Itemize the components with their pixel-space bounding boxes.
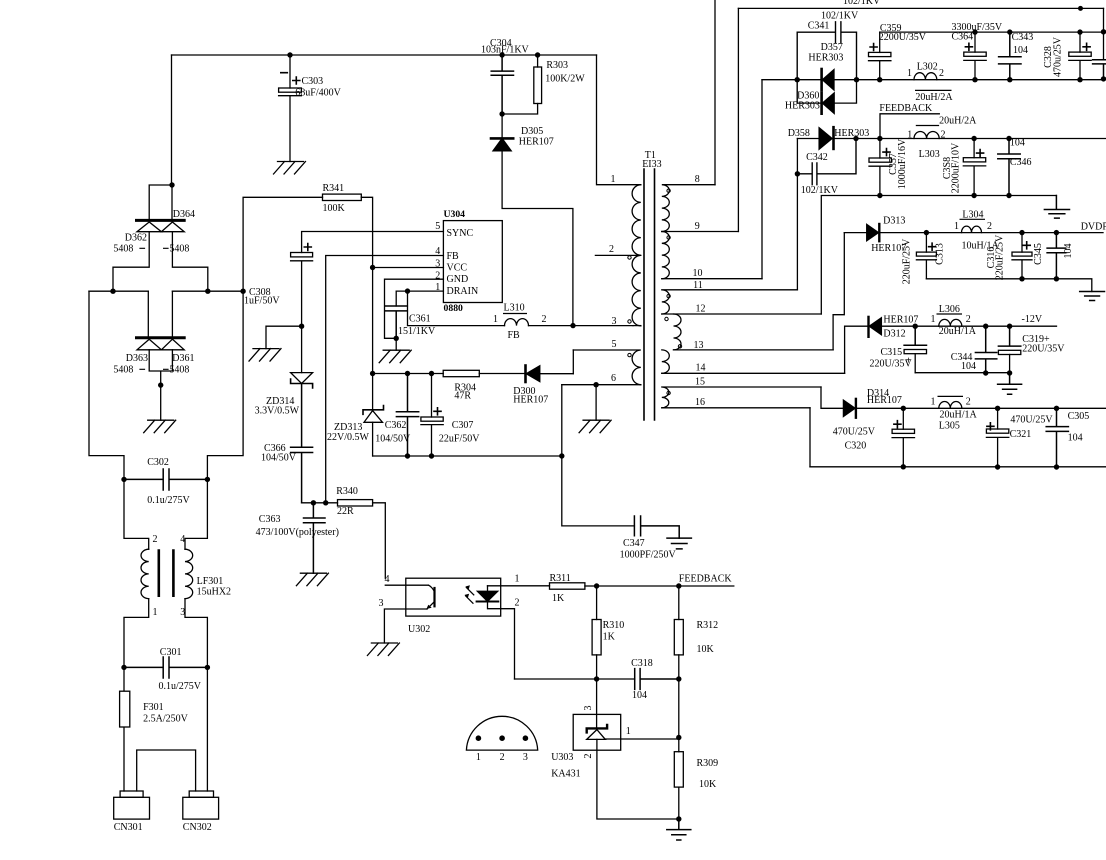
capacitor C362 [405, 371, 410, 376]
junction [1019, 230, 1024, 235]
capacitor C357 [879, 139, 881, 159]
wire: CN302 riser [206, 667, 208, 791]
resistor R303 [535, 52, 540, 57]
wire: down to D363 [147, 291, 149, 338]
svg-text:CN301: CN301 [114, 822, 143, 833]
svg-text:5: 5 [435, 221, 440, 232]
svg-text:10: 10 [693, 268, 703, 279]
wire: U302 pin 1 to R311 [488, 585, 550, 587]
wire: AC right outer [207, 291, 243, 479]
svg-text:5408: 5408 [113, 365, 133, 376]
capacitor C338 (cut at edge) [1093, 60, 1106, 79]
svg-text:470U/25V: 470U/25V [1010, 415, 1053, 426]
wire: pin 6 ground stub [595, 385, 597, 421]
svg-text:1: 1 [435, 282, 440, 293]
ground (C308, chassis) [249, 349, 281, 362]
svg-text:C305: C305 [1068, 411, 1090, 422]
junction [795, 77, 800, 82]
svg-text:C321: C321 [1010, 429, 1032, 440]
svg-text:HER107: HER107 [883, 315, 918, 326]
svg-text:C363: C363 [259, 514, 281, 525]
diode D364 (bridge, upper-right) [161, 222, 184, 232]
svg-text:4: 4 [435, 246, 440, 257]
svg-text:22R: 22R [337, 506, 354, 517]
svg-text:D357: D357 [821, 42, 843, 53]
resistor R311 [550, 583, 585, 589]
connector P1 (3-pin) [466, 716, 537, 750]
svg-text:SYNC: SYNC [447, 228, 474, 239]
wire: to ground [266, 326, 302, 348]
svg-text:12: 12 [696, 304, 706, 315]
svg-text:104/50V: 104/50V [375, 434, 411, 445]
junction [972, 29, 977, 34]
svg-text:DVDP: DVDP [1081, 222, 1106, 233]
junction [287, 52, 292, 57]
svg-text:3: 3 [523, 752, 528, 763]
wire: D360 anode link [834, 80, 856, 103]
svg-text:D312: D312 [883, 329, 905, 340]
wire: from D362 anode down [113, 232, 149, 292]
junction [995, 406, 1000, 411]
junction [676, 735, 681, 740]
svg-text:220U/35V: 220U/35V [1022, 344, 1065, 355]
junction [523, 735, 529, 741]
svg-text:1000PF/250V: 1000PF/250V [620, 550, 677, 561]
svg-text:2: 2 [153, 534, 158, 545]
svg-text:20uH/2A: 20uH/2A [939, 115, 977, 126]
junction [1007, 77, 1012, 82]
svg-text:2200uF/10V: 2200uF/10V [951, 142, 962, 193]
svg-text:HER107: HER107 [867, 395, 902, 406]
wire: D300 up to pin5 [572, 350, 574, 374]
capacitor C364 [974, 32, 976, 52]
svg-text:1000uF/16V: 1000uF/16V [897, 138, 908, 189]
junction [913, 324, 918, 329]
wire: pin 3 VCC line [373, 267, 444, 269]
svg-text:2: 2 [987, 221, 992, 232]
svg-text:10K: 10K [699, 779, 717, 790]
svg-text:104: 104 [632, 690, 647, 701]
node: junction C361 ground [394, 336, 399, 341]
junction [901, 464, 906, 469]
wire: bridge top loop [149, 185, 172, 219]
net label FEEDBACK stub [880, 114, 939, 139]
svg-text:5408: 5408 [169, 244, 189, 255]
wire: row2 main line [797, 138, 1106, 140]
svg-text:2: 2 [542, 314, 547, 325]
wire: pin 13 to D313 [833, 233, 844, 350]
svg-text:C320: C320 [845, 441, 867, 452]
diode D305 [501, 114, 503, 138]
wire: row5 main line [856, 407, 1106, 409]
svg-text:100K/2W: 100K/2W [545, 74, 585, 85]
transformer T1 core [644, 169, 655, 420]
capacitor C345 [1047, 233, 1066, 279]
wire: pin 5 SYNC line [302, 232, 444, 253]
svg-text:11: 11 [693, 280, 703, 291]
svg-text:C343: C343 [1012, 32, 1034, 43]
ground (U304 GND / C361, chassis) [379, 350, 411, 363]
wire: U303 pin 1 [605, 738, 679, 740]
svg-text:C307: C307 [452, 420, 474, 431]
svg-text:20uH/1A: 20uH/1A [940, 410, 978, 421]
T1 secondary winding 13-14 [662, 350, 670, 373]
label dash D363 [139, 368, 168, 370]
capacitor C315 (inverted electrolytic) [904, 326, 926, 345]
svg-text:R303: R303 [546, 60, 568, 71]
junction [593, 382, 598, 387]
svg-text:15uHX2: 15uHX2 [197, 587, 231, 598]
capacitor C363 [304, 503, 326, 573]
node: junction bridge negative [158, 382, 163, 387]
label dash D362 [139, 247, 168, 249]
diode D363 (bridge, lower-left) [137, 336, 185, 339]
capacitor C342 (snubber) [797, 139, 856, 185]
L310 underline [503, 313, 527, 315]
ground (row3, earth) [1080, 292, 1105, 301]
junction [1007, 29, 1012, 34]
capacitor C318 [635, 669, 679, 690]
LED U302 (diode) [477, 586, 497, 602]
wire: primary cold rail [373, 455, 562, 457]
wire: C302 to LF301 [124, 479, 149, 549]
svg-text:D305: D305 [521, 126, 543, 137]
svg-text:2: 2 [515, 598, 520, 609]
shunt reg U303 KA431 box [573, 714, 621, 750]
junction [1007, 370, 1012, 375]
wire: AC left outer [89, 291, 124, 479]
svg-text:C364: C364 [952, 32, 974, 43]
junction [205, 477, 210, 482]
svg-text:FEEDBACK: FEEDBACK [679, 574, 733, 585]
junction [1054, 406, 1059, 411]
junction [594, 583, 599, 588]
transistor U302 phototransistor [433, 588, 435, 606]
node: junction bridge output [169, 182, 174, 187]
junction [476, 735, 482, 741]
junction [1007, 324, 1012, 329]
junction [1006, 136, 1011, 141]
junction [370, 371, 375, 376]
svg-text:8: 8 [695, 174, 700, 185]
junction [983, 370, 988, 375]
svg-text:C347: C347 [623, 538, 645, 549]
wire: pin 16 to row5 return [809, 408, 811, 467]
svg-text:D364: D364 [173, 209, 195, 220]
node: junction C308 ground tap [299, 324, 304, 329]
wire: row5 return rail [810, 466, 1106, 468]
wire: pin 8 riser to cut top rail [714, 0, 716, 185]
svg-text:2200U/35V: 2200U/35V [879, 32, 927, 43]
svg-text:0.1u/275V: 0.1u/275V [147, 495, 190, 506]
wire: drain to L310 [408, 291, 505, 326]
svg-text:R340: R340 [336, 486, 358, 497]
svg-text:R341: R341 [323, 183, 345, 194]
svg-text:C302: C302 [147, 457, 169, 468]
svg-text:L303: L303 [919, 149, 940, 160]
inductor L306 [939, 319, 962, 326]
junction [405, 453, 410, 458]
svg-text:3: 3 [180, 607, 185, 618]
svg-text:220uF/25V: 220uF/25V [902, 238, 913, 284]
diode D313 [867, 224, 879, 240]
junction [924, 230, 929, 235]
wire: LF301 to C301 [124, 599, 149, 668]
wire: CN301-CN302 link [137, 750, 196, 791]
diode D360 [820, 93, 823, 114]
wire: AC rail right segment [172, 290, 243, 292]
diode D358 [819, 128, 832, 150]
wire: T1 pin 3 line [633, 325, 641, 327]
ground (C363, chassis) [296, 573, 328, 586]
wire: row3 return rail [926, 279, 1091, 292]
T1 phase dots primary [628, 256, 631, 259]
svg-text:D362: D362 [125, 233, 147, 244]
ground (U302 pin3, chassis) [367, 643, 399, 656]
wire: C318 line [515, 678, 635, 680]
svg-text:C362: C362 [385, 420, 407, 431]
capacitor C321 [997, 408, 999, 429]
junction [676, 676, 681, 681]
zener ZD314 [291, 373, 313, 384]
svg-text:D361: D361 [172, 353, 194, 364]
svg-text:0880: 0880 [444, 303, 464, 314]
wire: VCC feed down [372, 268, 374, 374]
svg-text:100K: 100K [323, 203, 346, 214]
capacitor C366 [291, 384, 313, 503]
svg-text:FB: FB [508, 330, 521, 341]
svg-text:5: 5 [612, 339, 617, 350]
svg-text:C341: C341 [808, 21, 830, 32]
svg-text:20uH/2A: 20uH/2A [915, 92, 953, 103]
svg-text:U303: U303 [551, 752, 573, 763]
LED arrows [466, 587, 474, 603]
svg-text:2: 2 [966, 314, 971, 325]
T1 aux winding 5-6 [573, 350, 641, 385]
wire: pin 1 DRAIN line [396, 291, 443, 306]
KA431 symbol [587, 725, 607, 733]
svg-text:U304: U304 [444, 209, 466, 220]
capacitor C305 [1046, 408, 1068, 467]
wire: row4 main line [881, 325, 1056, 327]
svg-text:1uF/50V: 1uF/50V [244, 296, 280, 307]
svg-text:4: 4 [385, 574, 390, 585]
T1 phase dots secondary [667, 189, 670, 192]
ground (R309, earth) [667, 819, 691, 840]
T1 secondary winding 8-9-10 [662, 185, 715, 232]
svg-text:R310: R310 [603, 620, 625, 631]
junction [676, 816, 681, 821]
inductor L310 [505, 319, 529, 326]
svg-text:3: 3 [583, 706, 594, 711]
wire: U302 pin 3 [384, 609, 427, 643]
L303 value line [916, 125, 939, 127]
svg-text:9: 9 [695, 221, 700, 232]
svg-text:104: 104 [1010, 138, 1025, 149]
wire: pin 9 riser to top rail [737, 8, 739, 231]
svg-text:104: 104 [1063, 244, 1074, 259]
inductor LF301 left winding [141, 549, 149, 598]
capacitor C302 [124, 469, 207, 490]
junction [1054, 230, 1059, 235]
capacitor C347 [634, 516, 679, 538]
svg-text:C315: C315 [881, 347, 903, 358]
svg-text:2: 2 [966, 397, 971, 408]
svg-text:HER303: HER303 [808, 53, 843, 64]
IC U304 box [443, 221, 502, 303]
wire: pin 10 riser [761, 80, 763, 279]
svg-text:+: + [906, 356, 912, 367]
T1 primary winding 1-2-3 [597, 55, 641, 185]
node: junction FB tap [323, 500, 328, 505]
svg-text:1: 1 [907, 130, 912, 141]
ground (row2, earth) [1044, 196, 1069, 219]
capacitor C341 (snubber) [797, 22, 856, 103]
svg-text:15: 15 [695, 377, 705, 388]
svg-text:102/1KV: 102/1KV [801, 185, 839, 196]
capacitor C303 [289, 55, 291, 88]
connector CN301 [120, 791, 143, 797]
svg-text:102/1KV: 102/1KV [843, 0, 881, 7]
junction [972, 77, 977, 82]
wire: pin 4 FB line [326, 256, 444, 503]
svg-text:1: 1 [476, 752, 481, 763]
svg-text:L305: L305 [939, 421, 960, 432]
junction [1054, 276, 1059, 281]
wire: bridge bottom merge [149, 350, 172, 420]
svg-text:L306: L306 [939, 304, 960, 315]
svg-text:U302: U302 [408, 624, 430, 635]
junction [559, 453, 564, 458]
svg-text:22uF/50V: 22uF/50V [439, 434, 480, 445]
svg-text:104/50V: 104/50V [261, 453, 297, 464]
svg-text:1: 1 [931, 314, 936, 325]
resistor R340 [338, 500, 373, 506]
wire: FEEDBACK line (secondary feedback node) [597, 585, 734, 587]
svg-text:LF301: LF301 [197, 576, 224, 587]
svg-text:151/1KV: 151/1KV [398, 326, 436, 337]
wire: row4 return rail [915, 372, 1009, 374]
diode D300 [524, 366, 527, 383]
capacitor C307 [429, 371, 434, 376]
wire: secondary 0V rail (row1) [880, 31, 1104, 33]
L304 underline [960, 218, 986, 220]
junction [205, 665, 210, 670]
svg-text:VCC: VCC [447, 263, 468, 274]
svg-text:16: 16 [695, 397, 705, 408]
resistor R341 [243, 197, 322, 291]
wire: U303 pin 3 [596, 679, 598, 728]
resistor R304 [443, 370, 479, 376]
svg-text:HER107: HER107 [513, 395, 548, 406]
junction [995, 464, 1000, 469]
capacitor C343 [999, 32, 1021, 80]
svg-text:EI33: EI33 [642, 159, 661, 170]
capacitor C308 [291, 253, 313, 257]
svg-text:HER303: HER303 [834, 128, 869, 139]
svg-text:2.5A/250V: 2.5A/250V [143, 714, 189, 725]
ground (T1 pin 6, chassis) [579, 420, 611, 433]
svg-text:HER107: HER107 [519, 137, 554, 148]
inductor LF301 right winding [185, 549, 193, 598]
svg-text:C301: C301 [160, 647, 182, 658]
junction [1078, 6, 1083, 11]
capacitor C319 (inverted electrolytic) [998, 326, 1020, 346]
T1 secondary winding 15-16 [662, 387, 821, 408]
capacitor C328 [1079, 32, 1081, 52]
wire: VCC rail [373, 373, 444, 375]
svg-text:3: 3 [379, 598, 384, 609]
wire: pin 11 riser [796, 139, 798, 290]
T1 secondary winding 11-12 [662, 290, 798, 314]
svg-text:470u/25V: 470u/25V [1053, 36, 1064, 77]
fuse F301 [123, 667, 125, 791]
svg-text:1K: 1K [603, 632, 616, 643]
svg-text:FEEDBACK: FEEDBACK [879, 103, 933, 114]
junction [854, 77, 859, 82]
L302 value overline [915, 89, 952, 91]
junction [121, 665, 126, 670]
node: junction C342 tap [795, 171, 800, 176]
svg-text:1: 1 [611, 174, 616, 185]
inductor L304 [962, 226, 982, 232]
svg-text:CN302: CN302 [183, 822, 212, 833]
junction [877, 136, 882, 141]
svg-text:C303: C303 [302, 76, 324, 87]
node: junction VCC pin [370, 265, 375, 270]
capacitor C313 [925, 233, 927, 253]
junction [499, 735, 505, 741]
svg-text:3.3V/0.5W: 3.3V/0.5W [255, 406, 300, 417]
junction [971, 193, 976, 198]
capacitor C358 [973, 139, 975, 158]
svg-text:22V/0.5W: 22V/0.5W [327, 432, 370, 443]
svg-text:3: 3 [612, 316, 617, 327]
wire: left drop from top rail to bridge [171, 55, 173, 185]
wire: R340 line [302, 502, 338, 504]
wire: T1 pin 6 line [562, 384, 641, 386]
junction [877, 77, 882, 82]
svg-text:1: 1 [153, 607, 158, 618]
capacitor C304 [499, 52, 504, 57]
wire: from D364 anode down [172, 232, 207, 292]
svg-text:F301: F301 [143, 702, 164, 713]
wire: DC+ top rail [172, 54, 597, 56]
diode D357 [820, 69, 823, 90]
svg-text:C346: C346 [1010, 157, 1032, 168]
svg-text:13: 13 [694, 340, 704, 351]
svg-text:103nF/1KV: 103nF/1KV [481, 45, 530, 56]
wire: row3 main line [844, 232, 1103, 234]
capacitor C320 [902, 408, 904, 429]
connector CN302 [189, 791, 213, 797]
svg-text:2: 2 [609, 244, 614, 255]
svg-text:1: 1 [931, 397, 936, 408]
svg-text:3: 3 [435, 259, 440, 270]
wire: D305 anode to drain line [502, 151, 573, 326]
junction [429, 453, 434, 458]
svg-text:L310: L310 [504, 303, 525, 314]
svg-text:2: 2 [500, 752, 505, 763]
wire: T1 pin 2 stub [595, 254, 640, 256]
svg-text:104: 104 [961, 361, 976, 372]
node: junction R341 feed [240, 289, 245, 294]
junction [1019, 276, 1024, 281]
ground (row4, earth) [998, 373, 1022, 395]
capacitor C344 [975, 326, 996, 373]
wire: pin 15 to D314 [821, 387, 843, 408]
junction [676, 583, 681, 588]
